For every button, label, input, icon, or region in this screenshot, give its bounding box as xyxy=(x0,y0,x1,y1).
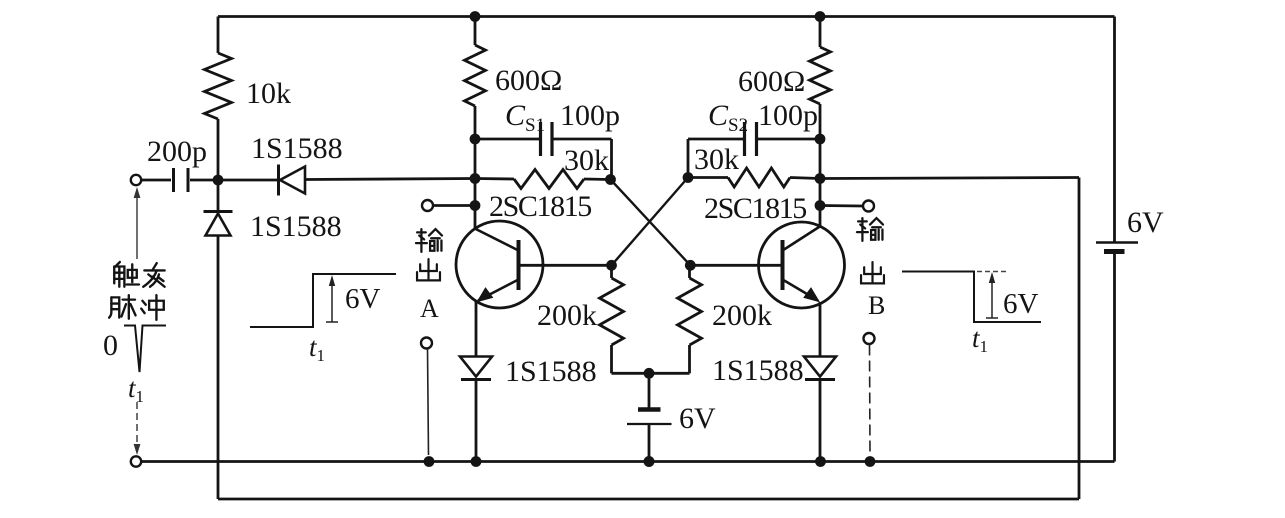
wire: output B lower terminal to rail xyxy=(869,345,872,456)
svg-text:0: 0 xyxy=(103,329,118,362)
resistor 30k (left, horizontal) xyxy=(475,177,514,180)
diode 1S1588 (Q1 emitter) xyxy=(460,357,492,377)
node: output A rail junction xyxy=(424,456,435,467)
label 触发 (trigger) xyxy=(114,262,139,287)
svg-text:600Ω: 600Ω xyxy=(738,65,805,98)
svg-text:600Ω: 600Ω xyxy=(495,64,562,97)
resistor 30k (right, horizontal) xyxy=(688,176,728,179)
svg-text:1S1588: 1S1588 xyxy=(505,355,597,388)
transistor Q2 2SC1815 (right) xyxy=(759,222,845,308)
node: battery top junction xyxy=(644,368,655,379)
node: output B tap junction xyxy=(815,200,826,211)
diode 1S1588 (Q2 emitter) xyxy=(804,357,836,377)
node: output B rail junction xyxy=(865,456,876,467)
arrowhead: Q1 emitter xyxy=(478,288,493,302)
svg-text:200p: 200p xyxy=(147,135,207,168)
wire: Q2 base lead xyxy=(690,264,780,267)
capacitor Cs1 100p xyxy=(475,138,539,141)
svg-text:1S1588: 1S1588 xyxy=(250,210,342,243)
svg-text:30k: 30k xyxy=(564,144,609,177)
terminal: trigger input (top) xyxy=(131,175,141,185)
diode 1S1588 (series, horizontal) xyxy=(218,179,278,182)
node: input junction xyxy=(213,175,224,186)
svg-text:1S1588: 1S1588 xyxy=(251,132,343,165)
wire: diagonal from left 30k to Q2 base xyxy=(611,180,691,266)
wire: outer bottom line xyxy=(218,498,1079,501)
transistor Q1 2SC1815 (left) xyxy=(456,221,543,308)
node: 30k right left-end xyxy=(683,172,694,183)
svg-text:2SC1815: 2SC1815 xyxy=(704,192,806,225)
arrow: waveform A 6V xyxy=(331,281,333,322)
wire: Q1 emitter down xyxy=(475,301,478,357)
terminal: output B (top) xyxy=(863,201,874,212)
label 输出 A (output A) xyxy=(416,229,442,252)
svg-text:1S1588: 1S1588 xyxy=(712,354,804,387)
svg-text:6V: 6V xyxy=(1003,288,1039,320)
svg-text:A: A xyxy=(420,294,439,323)
wire: 200k commons to battery xyxy=(612,372,690,375)
node: output A tap junction xyxy=(470,200,481,211)
annotation line: trigger to input terminals with arrows xyxy=(136,196,138,259)
capacitor Cs2 100p xyxy=(688,138,743,141)
waveform: output B step down xyxy=(902,272,1041,323)
terminal: output A (top) xyxy=(422,200,433,211)
node: 600ohm/Cs1 left junction xyxy=(470,134,481,145)
waveform: output A step up xyxy=(250,274,396,327)
wire: output B tap xyxy=(820,204,862,207)
node: top rail / 600ohm left xyxy=(470,11,481,22)
svg-text:6V: 6V xyxy=(679,402,716,435)
battery 6V (supply, right) xyxy=(1096,241,1138,243)
svg-text:6V: 6V xyxy=(1127,206,1164,239)
capacitor C 200p xyxy=(172,168,175,192)
wire: +6V top supply rail xyxy=(218,15,1115,18)
wire: left frame vertical (through 10k and 1S1588) segments xyxy=(217,17,220,54)
resistor 200k (left) xyxy=(610,265,613,278)
resistor 10k xyxy=(205,53,232,119)
wire: ground/bottom rail xyxy=(142,460,1115,463)
terminal: trigger input (bottom) xyxy=(131,456,141,466)
label 脉冲 (pulse) xyxy=(109,295,135,319)
wire: Cs2 left side down to 30k node xyxy=(687,139,690,178)
wire: right supply vertical (to 6V battery) xyxy=(1113,17,1116,243)
arrowhead: Q2 emitter xyxy=(804,288,819,302)
wire: waveform B reference level dashes xyxy=(977,271,1007,273)
wire: output A tap xyxy=(434,204,475,207)
svg-text:100p: 100p xyxy=(560,99,620,132)
wire: diagonal from right 30k to Q1 base xyxy=(612,178,689,266)
wire: Q2 emitter down xyxy=(819,302,822,357)
svg-text:200k: 200k xyxy=(537,299,597,332)
arrow: waveform B 6V xyxy=(991,278,993,318)
wire: Q1 base lead xyxy=(521,264,612,267)
node: Q1 emitter rail junction xyxy=(471,456,482,467)
terminal: output B (bottom) xyxy=(864,333,875,344)
resistor 200k (right) xyxy=(688,265,691,278)
node: 600ohm/Cs2 right junction xyxy=(815,134,826,145)
label 输出 B (output B) xyxy=(857,218,883,241)
svg-text:10k: 10k xyxy=(246,77,291,110)
wire: output A lower terminal to rail xyxy=(428,349,429,455)
terminal: output A (bottom) xyxy=(421,338,432,349)
battery 6V (bias, center) xyxy=(648,373,651,408)
resistor 600ohm (left) xyxy=(474,17,477,46)
wire: input to 200p xyxy=(142,179,171,182)
resistor 600ohm (right) xyxy=(819,17,822,48)
node: Q2 base junction xyxy=(685,260,696,271)
svg-text:200k: 200k xyxy=(712,299,772,332)
diode 1S1588 (shunt, vertical) xyxy=(204,210,233,213)
wire: right vertical from Q2 collector line down to outer bottom xyxy=(1078,178,1081,500)
node: top rail / 600ohm right xyxy=(815,11,826,22)
wire: Q2 collector line to right frame xyxy=(820,178,1079,179)
waveform: trigger negative spike xyxy=(124,326,166,373)
svg-text:B: B xyxy=(868,291,885,320)
node: Q2 emitter rail junction xyxy=(815,456,826,467)
svg-text:30k: 30k xyxy=(694,143,739,176)
node: Q1 base junction xyxy=(606,260,617,271)
svg-text:6V: 6V xyxy=(345,283,381,315)
node: collector line right junction xyxy=(815,173,826,184)
node: battery bottom rail junction xyxy=(644,456,655,467)
node: 30k left right-end xyxy=(605,174,616,185)
wire: Cs1 right side down to 30k node xyxy=(610,139,613,180)
wire: 200p to node xyxy=(190,179,218,182)
svg-text:100p: 100p xyxy=(758,99,818,132)
svg-text:2SC1815: 2SC1815 xyxy=(489,190,591,223)
node: collector line left junction xyxy=(470,173,481,184)
